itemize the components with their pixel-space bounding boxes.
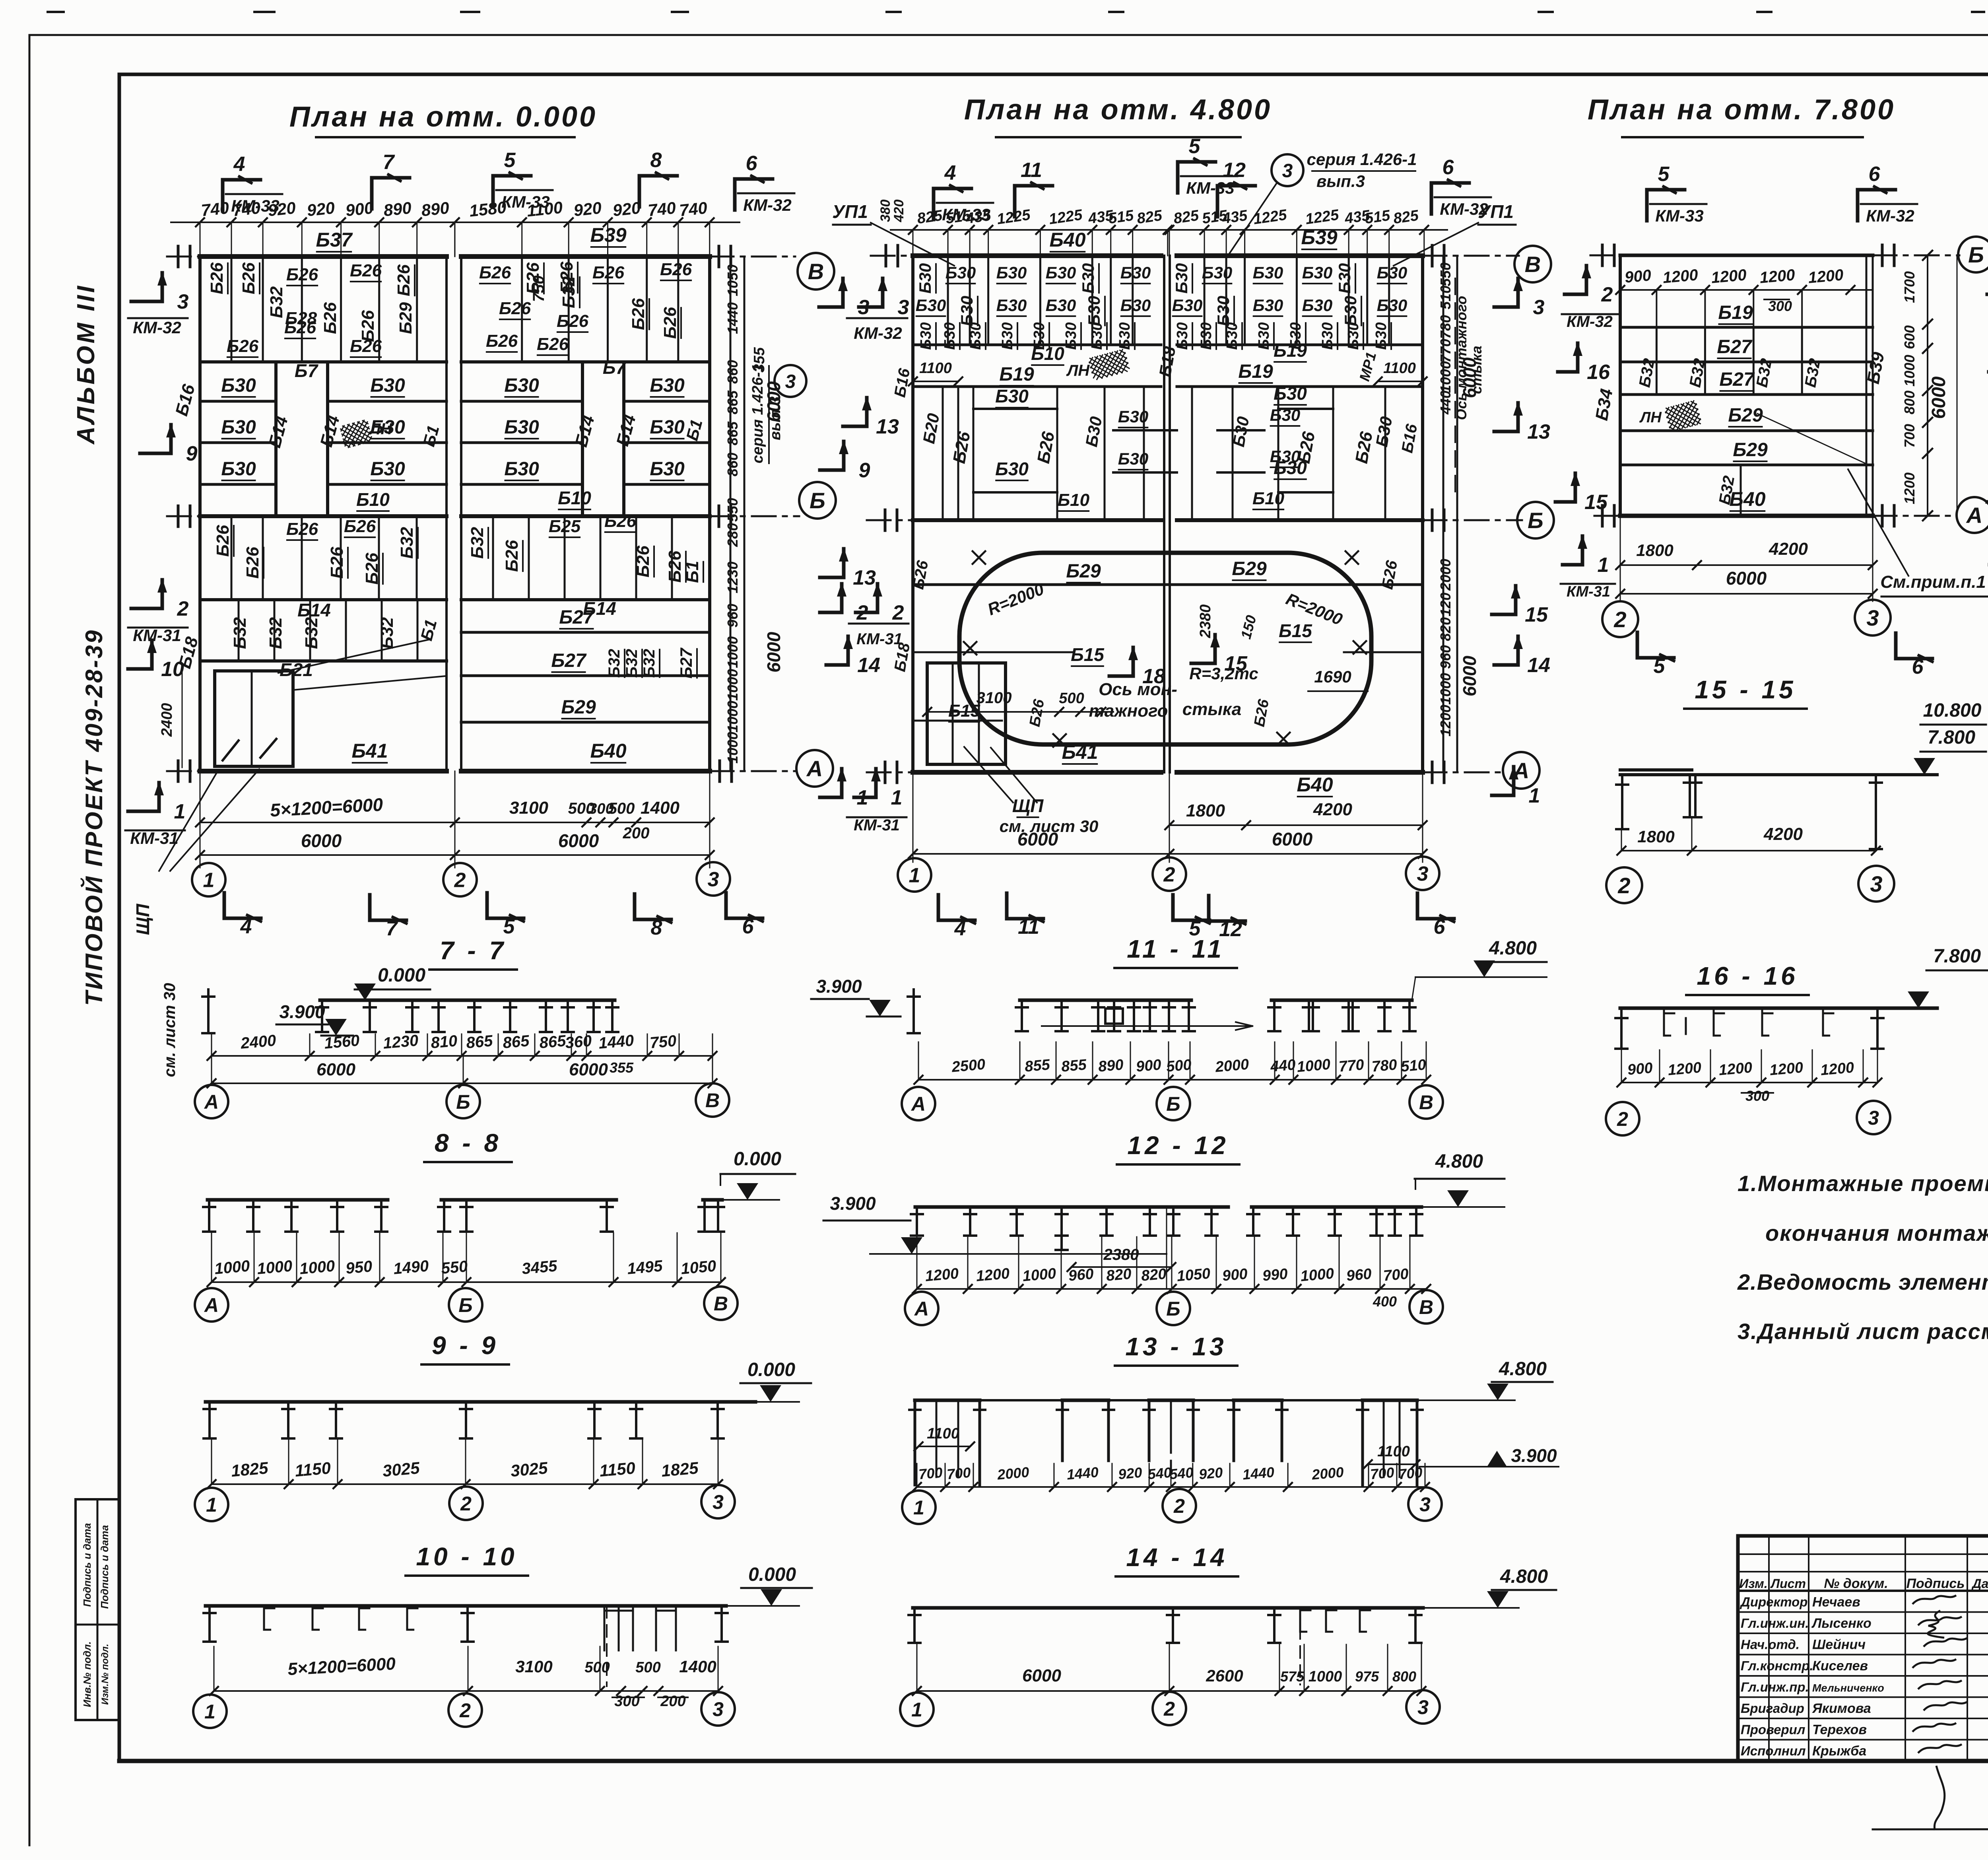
svg-text:Б26: Б26 <box>350 261 382 280</box>
svg-text:Б30: Б30 <box>1031 322 1048 350</box>
svg-text:ЛН: ЛН <box>1066 362 1090 379</box>
svg-text:1000: 1000 <box>1309 1668 1342 1685</box>
svg-text:Б30: Б30 <box>504 375 539 396</box>
svg-text:Б15: Б15 <box>948 701 980 721</box>
svg-text:1800: 1800 <box>1637 827 1674 846</box>
svg-text:Гл.инж.пр.: Гл.инж.пр. <box>1741 1680 1809 1695</box>
svg-text:А: А <box>911 1093 926 1115</box>
svg-text:вып.3: вып.3 <box>1316 172 1365 190</box>
svg-text:920: 920 <box>612 198 642 220</box>
svg-text:см. лист 30: см. лист 30 <box>161 983 179 1077</box>
svg-text:Б7: Б7 <box>603 357 627 378</box>
svg-text:920: 920 <box>573 198 603 220</box>
svg-text:КМ-33: КМ-33 <box>1655 206 1704 225</box>
svg-text:В: В <box>705 1089 720 1112</box>
svg-text:Б26: Б26 <box>557 311 589 331</box>
svg-text:Б29: Б29 <box>1733 439 1768 461</box>
svg-text:Б30: Б30 <box>1116 322 1133 350</box>
svg-text:960: 960 <box>1068 1265 1095 1284</box>
svg-text:Б: Б <box>1528 508 1543 533</box>
svg-text:3: 3 <box>1282 160 1293 181</box>
svg-text:1440: 1440 <box>1242 1464 1275 1483</box>
svg-text:1440: 1440 <box>724 302 741 334</box>
svg-text:Б30: Б30 <box>1085 296 1103 326</box>
svg-text:3: 3 <box>1870 871 1882 896</box>
svg-text:Б29: Б29 <box>561 697 596 718</box>
svg-text:КМ-32: КМ-32 <box>133 318 181 337</box>
svg-text:3.900: 3.900 <box>279 1001 325 1022</box>
svg-text:Б30: Б30 <box>1274 383 1307 404</box>
svg-text:5: 5 <box>1189 135 1201 158</box>
svg-text:1100: 1100 <box>919 360 952 377</box>
svg-text:780: 780 <box>1437 315 1454 339</box>
svg-text:Б: Б <box>1968 242 1984 267</box>
svg-text:355: 355 <box>610 1059 634 1076</box>
svg-text:920: 920 <box>306 198 336 220</box>
svg-text:10.800: 10.800 <box>1923 700 1982 721</box>
svg-text:280: 280 <box>724 523 741 547</box>
svg-text:6000: 6000 <box>1017 829 1058 849</box>
svg-text:15 - 15: 15 - 15 <box>1695 675 1796 704</box>
svg-text:Б26: Б26 <box>633 545 653 577</box>
svg-text:1: 1 <box>174 800 186 823</box>
svg-text:Б32: Б32 <box>267 286 286 318</box>
svg-text:920: 920 <box>1118 1464 1143 1483</box>
svg-text:Б26: Б26 <box>286 519 318 539</box>
svg-text:11 - 11: 11 - 11 <box>1127 935 1225 963</box>
svg-text:825: 825 <box>916 207 944 227</box>
svg-text:1800: 1800 <box>1186 801 1225 820</box>
svg-text:3100: 3100 <box>509 798 548 818</box>
svg-text:12 - 12: 12 - 12 <box>1127 1131 1229 1160</box>
svg-text:11: 11 <box>1018 915 1039 939</box>
svg-text:2: 2 <box>1601 283 1613 306</box>
svg-text:КМ-32: КМ-32 <box>1567 313 1613 330</box>
svg-text:550: 550 <box>441 1257 468 1277</box>
svg-text:Б30: Б30 <box>221 459 256 480</box>
svg-text:ЛН: ЛН <box>369 420 392 438</box>
svg-text:КМ-31: КМ-31 <box>130 829 179 847</box>
svg-text:575: 575 <box>1280 1668 1305 1685</box>
svg-text:13: 13 <box>1527 420 1550 443</box>
svg-text:Б30: Б30 <box>1256 322 1272 350</box>
svg-text:0.000: 0.000 <box>748 1564 796 1585</box>
svg-text:550: 550 <box>1437 262 1454 286</box>
svg-text:Б30: Б30 <box>1198 322 1215 350</box>
svg-text:Б30: Б30 <box>221 375 256 396</box>
svg-text:960: 960 <box>1437 645 1454 669</box>
svg-text:План на отм. 7.800: План на отм. 7.800 <box>1588 94 1895 126</box>
svg-text:1200: 1200 <box>1769 1059 1804 1079</box>
svg-text:1580: 1580 <box>468 198 507 220</box>
svg-text:Б30: Б30 <box>1377 263 1407 282</box>
svg-text:1: 1 <box>1598 554 1609 577</box>
svg-text:Б32: Б32 <box>641 649 658 678</box>
svg-text:4.800: 4.800 <box>1489 938 1537 959</box>
svg-text:3: 3 <box>1419 1493 1431 1516</box>
svg-text:Инв.№ подл.: Инв.№ подл. <box>81 1641 93 1707</box>
svg-text:3.900: 3.900 <box>830 1193 876 1214</box>
svg-text:1050: 1050 <box>724 264 741 296</box>
svg-text:2400: 2400 <box>159 703 175 737</box>
svg-text:1: 1 <box>206 1494 217 1516</box>
svg-text:Б30: Б30 <box>370 375 405 396</box>
svg-text:Б32: Б32 <box>302 617 321 649</box>
svg-text:0.000: 0.000 <box>734 1149 781 1170</box>
svg-text:1400: 1400 <box>679 1657 716 1676</box>
svg-text:4200: 4200 <box>1769 539 1808 559</box>
svg-text:Изм.: Изм. <box>1739 1576 1767 1591</box>
svg-text:УП1: УП1 <box>832 201 868 222</box>
svg-text:Б30: Б30 <box>1377 296 1407 315</box>
svg-text:1000: 1000 <box>214 1257 250 1278</box>
svg-text:1150: 1150 <box>294 1458 332 1480</box>
svg-text:435: 435 <box>1221 207 1248 227</box>
svg-text:15: 15 <box>1525 603 1548 626</box>
svg-text:700: 700 <box>1901 424 1918 448</box>
svg-text:В: В <box>1419 1091 1433 1114</box>
svg-text:серия 1.426-1: серия 1.426-1 <box>1307 150 1417 169</box>
svg-text:Б7: Б7 <box>295 360 319 381</box>
svg-text:Б26: Б26 <box>629 298 648 330</box>
svg-text:Б26: Б26 <box>499 299 531 318</box>
svg-text:Б30: Б30 <box>995 459 1029 479</box>
svg-text:1200: 1200 <box>1718 1059 1753 1079</box>
svg-text:Б30: Б30 <box>1120 296 1151 315</box>
svg-text:7.800: 7.800 <box>1933 946 1981 967</box>
svg-text:855: 855 <box>1061 1056 1088 1075</box>
svg-text:750: 750 <box>649 1032 677 1052</box>
svg-text:Б26: Б26 <box>486 331 518 351</box>
svg-text:Б30: Б30 <box>996 296 1027 315</box>
svg-text:1200: 1200 <box>1807 266 1844 287</box>
svg-text:515: 515 <box>1364 207 1391 227</box>
svg-text:11: 11 <box>1021 159 1042 182</box>
svg-text:380: 380 <box>878 200 893 222</box>
svg-text:0.000: 0.000 <box>378 965 425 986</box>
svg-text:700: 700 <box>946 1464 971 1483</box>
svg-text:Подпись: Подпись <box>1906 1576 1965 1591</box>
svg-text:Б26: Б26 <box>537 334 569 354</box>
svg-text:Лысенко: Лысенко <box>1811 1616 1872 1631</box>
svg-text:1200: 1200 <box>1437 705 1454 737</box>
svg-text:1: 1 <box>909 864 920 887</box>
svg-text:2.Ведомость элементов и общ: 2.Ведомость элементов и общие примечания… <box>1737 1269 1988 1294</box>
svg-text:1100: 1100 <box>1377 1443 1410 1460</box>
svg-text:Б30: Б30 <box>916 296 946 315</box>
svg-text:510: 510 <box>1400 1056 1427 1075</box>
svg-text:Б30: Б30 <box>1120 263 1151 282</box>
svg-text:Шейнич: Шейнич <box>1812 1637 1866 1652</box>
svg-text:Б40: Б40 <box>1297 774 1333 796</box>
svg-text:А: А <box>204 1294 219 1316</box>
svg-text:1490: 1490 <box>393 1257 429 1278</box>
svg-text:КМ-31: КМ-31 <box>133 626 181 645</box>
svg-text:7 - 7: 7 - 7 <box>440 936 507 965</box>
svg-text:Б29: Б29 <box>1232 558 1267 579</box>
svg-text:5: 5 <box>1658 163 1670 186</box>
svg-text:6000: 6000 <box>316 1060 355 1079</box>
svg-text:Гл.констр.: Гл.констр. <box>1741 1658 1813 1673</box>
svg-text:ТИПОВОЙ ПРОЕКТ 409-28-39: ТИПОВОЙ ПРОЕКТ 409-28-39 <box>80 629 107 1006</box>
svg-text:2380: 2380 <box>1197 604 1214 639</box>
svg-text:3: 3 <box>1417 1696 1429 1718</box>
svg-text:Б30: Б30 <box>1172 296 1202 315</box>
svg-text:3100: 3100 <box>515 1657 552 1676</box>
svg-text:Б27: Б27 <box>1717 336 1753 358</box>
svg-text:9 - 9: 9 - 9 <box>432 1331 499 1360</box>
svg-text:Б39: Б39 <box>1301 226 1337 249</box>
svg-text:Б: Б <box>458 1294 472 1316</box>
svg-text:6000: 6000 <box>558 830 599 851</box>
svg-text:890: 890 <box>1098 1056 1124 1075</box>
svg-text:900: 900 <box>345 198 375 220</box>
svg-text:500: 500 <box>635 1659 660 1676</box>
svg-text:7.800: 7.800 <box>1928 727 1975 748</box>
svg-text:Б26: Б26 <box>502 540 522 572</box>
svg-text:Б19: Б19 <box>1238 361 1273 382</box>
svg-text:КМ-31: КМ-31 <box>856 630 903 648</box>
svg-text:1: 1 <box>911 1699 922 1721</box>
svg-text:Б30: Б30 <box>1046 263 1076 282</box>
svg-text:2400: 2400 <box>240 1032 277 1052</box>
svg-text:Изм.№ подл.: Изм.№ подл. <box>100 1644 111 1705</box>
svg-text:515: 515 <box>1107 207 1135 227</box>
svg-text:920: 920 <box>267 198 297 220</box>
svg-text:1000: 1000 <box>1022 1265 1057 1285</box>
svg-text:1230: 1230 <box>724 562 741 593</box>
svg-text:1200: 1200 <box>924 1265 959 1285</box>
svg-text:1200: 1200 <box>1667 1059 1702 1079</box>
svg-text:1230: 1230 <box>382 1032 419 1052</box>
svg-text:6: 6 <box>742 915 754 938</box>
svg-text:В: В <box>808 259 824 284</box>
svg-text:Б32: Б32 <box>606 649 623 678</box>
svg-text:810: 810 <box>430 1032 458 1052</box>
svg-text:Исполнил: Исполнил <box>1741 1743 1806 1758</box>
svg-text:Б30: Б30 <box>1253 263 1283 282</box>
svg-text:Б10: Б10 <box>558 488 591 508</box>
svg-text:500: 500 <box>1059 690 1084 707</box>
svg-text:300: 300 <box>1745 1088 1769 1104</box>
svg-text:1150: 1150 <box>599 1458 636 1480</box>
svg-text:Б26: Б26 <box>320 302 340 334</box>
svg-text:Б28: Б28 <box>285 309 317 328</box>
svg-text:Б37: Б37 <box>316 229 353 251</box>
svg-text:3.900: 3.900 <box>1511 1445 1557 1466</box>
svg-text:1000: 1000 <box>1300 1265 1335 1285</box>
svg-text:Б10: Б10 <box>356 489 390 510</box>
svg-text:2: 2 <box>177 597 189 620</box>
svg-text:АЛЬБОМ III: АЛЬБОМ III <box>72 284 100 445</box>
svg-text:900: 900 <box>1136 1056 1162 1075</box>
svg-text:А: А <box>914 1298 929 1320</box>
svg-text:План на отм. 4.800: План на отм. 4.800 <box>964 94 1272 126</box>
svg-text:900: 900 <box>1627 1059 1654 1078</box>
svg-text:Б26: Б26 <box>660 307 680 339</box>
svg-text:1000: 1000 <box>724 732 741 764</box>
svg-text:Б30: Б30 <box>1174 322 1191 350</box>
svg-text:540: 540 <box>1169 1464 1194 1483</box>
svg-text:стыка: стыка <box>1182 700 1241 719</box>
svg-text:А: А <box>1512 758 1529 783</box>
svg-text:Б32: Б32 <box>468 527 487 559</box>
svg-text:3: 3 <box>1866 605 1879 630</box>
svg-text:2: 2 <box>1163 1698 1175 1720</box>
svg-text:См.прим.п.1: См.прим.п.1 <box>1880 572 1986 592</box>
svg-text:3100: 3100 <box>977 689 1012 707</box>
svg-text:10 - 10: 10 - 10 <box>416 1542 517 1571</box>
svg-text:3: 3 <box>1417 863 1429 886</box>
svg-text:Б26: Б26 <box>350 336 382 356</box>
svg-text:Крыжба: Крыжба <box>1812 1743 1866 1759</box>
svg-text:120: 120 <box>1437 593 1454 616</box>
svg-text:1: 1 <box>204 1701 215 1723</box>
svg-text:6: 6 <box>746 152 758 175</box>
svg-text:6000: 6000 <box>301 830 342 851</box>
svg-text:2000: 2000 <box>1311 1464 1344 1483</box>
svg-text:Б27: Б27 <box>551 650 587 671</box>
svg-text:Б26: Б26 <box>592 263 625 282</box>
svg-text:5: 5 <box>1654 655 1666 678</box>
svg-text:Б19: Б19 <box>1718 302 1753 323</box>
svg-text:Б26: Б26 <box>362 552 382 585</box>
svg-text:Ось мон-: Ось мон- <box>1099 680 1177 699</box>
svg-text:Б30: Б30 <box>1302 296 1332 315</box>
svg-text:3025: 3025 <box>382 1458 421 1480</box>
svg-text:А: А <box>1966 503 1982 528</box>
svg-text:Б26: Б26 <box>239 262 258 294</box>
svg-text:1440: 1440 <box>1066 1464 1099 1483</box>
svg-text:3: 3 <box>712 1698 724 1720</box>
svg-text:14: 14 <box>857 654 880 677</box>
svg-text:Б30: Б30 <box>1063 322 1079 350</box>
svg-text:780: 780 <box>1371 1056 1398 1075</box>
svg-text:1100: 1100 <box>526 198 564 220</box>
svg-text:4.800: 4.800 <box>1499 1359 1547 1380</box>
svg-text:435: 435 <box>964 207 992 227</box>
svg-text:Б25: Б25 <box>549 517 581 536</box>
svg-text:13: 13 <box>876 415 899 438</box>
svg-text:800: 800 <box>1901 391 1918 414</box>
svg-text:1200: 1200 <box>975 1265 1010 1285</box>
svg-text:Б21: Б21 <box>280 659 313 680</box>
svg-text:Б26: Б26 <box>227 336 259 356</box>
svg-text:6000: 6000 <box>1022 1666 1061 1685</box>
svg-text:0.000: 0.000 <box>747 1359 795 1380</box>
svg-text:2000: 2000 <box>1437 559 1454 591</box>
svg-text:А: А <box>204 1091 219 1113</box>
svg-text:4200: 4200 <box>1313 800 1352 819</box>
svg-text:Мельниченко: Мельниченко <box>1812 1682 1884 1694</box>
svg-text:Б: Б <box>1166 1298 1180 1320</box>
svg-text:865: 865 <box>539 1032 567 1052</box>
svg-text:Б30: Б30 <box>370 459 405 480</box>
svg-text:Б32: Б32 <box>623 649 641 678</box>
svg-text:Б1: Б1 <box>683 561 702 583</box>
svg-text:Б30: Б30 <box>650 417 685 438</box>
svg-text:План на отм. 0.000: План на отм. 0.000 <box>289 101 597 133</box>
svg-text:440: 440 <box>1270 1056 1297 1075</box>
svg-text:4: 4 <box>944 161 956 185</box>
svg-text:2000: 2000 <box>996 1464 1030 1483</box>
svg-text:Б26: Б26 <box>604 511 637 531</box>
svg-text:3: 3 <box>1868 1107 1879 1129</box>
svg-text:300: 300 <box>1768 298 1792 314</box>
svg-text:5: 5 <box>503 915 515 938</box>
svg-text:ЛН: ЛН <box>1639 409 1662 426</box>
svg-text:Б26: Б26 <box>327 546 347 579</box>
svg-text:700: 700 <box>1398 1464 1423 1483</box>
svg-text:16: 16 <box>1587 361 1610 384</box>
svg-text:Киселев: Киселев <box>1812 1658 1868 1673</box>
svg-text:Б30: Б30 <box>945 263 976 282</box>
svg-text:Б15: Б15 <box>1279 620 1312 641</box>
svg-text:820: 820 <box>1106 1265 1132 1284</box>
svg-text:Б30: Б30 <box>1172 263 1191 293</box>
svg-text:Б41: Б41 <box>351 740 388 762</box>
svg-text:Бригадир: Бригадир <box>1741 1701 1804 1716</box>
svg-text:Б30: Б30 <box>1373 322 1390 350</box>
svg-text:КМ-32: КМ-32 <box>854 324 902 342</box>
svg-text:2500: 2500 <box>951 1056 986 1075</box>
svg-text:865: 865 <box>502 1032 530 1052</box>
svg-text:1495: 1495 <box>627 1257 664 1278</box>
svg-text:Б30: Б30 <box>504 459 539 480</box>
svg-text:Б30: Б30 <box>650 459 685 480</box>
svg-text:16 - 16: 16 - 16 <box>1697 962 1798 990</box>
svg-text:1000: 1000 <box>256 1257 293 1278</box>
svg-text:Б15: Б15 <box>1071 644 1105 665</box>
svg-text:Б32: Б32 <box>559 276 579 308</box>
svg-text:Ось монтажного: Ось монтажного <box>1453 296 1470 420</box>
svg-text:4200: 4200 <box>1763 824 1803 844</box>
svg-text:№ докум.: № докум. <box>1824 1576 1888 1591</box>
svg-text:1825: 1825 <box>660 1458 699 1480</box>
svg-text:1000: 1000 <box>724 669 741 701</box>
svg-text:6000: 6000 <box>1459 655 1480 696</box>
svg-text:Б30: Б30 <box>1079 263 1097 293</box>
svg-text:9: 9 <box>859 459 870 482</box>
svg-text:3: 3 <box>785 371 796 392</box>
svg-text:ЩП: ЩП <box>132 904 153 935</box>
svg-text:Б30: Б30 <box>957 296 976 326</box>
svg-text:Б32: Б32 <box>377 617 397 649</box>
svg-text:2: 2 <box>856 601 868 624</box>
svg-text:Б30: Б30 <box>1341 296 1360 326</box>
svg-text:1560: 1560 <box>324 1032 360 1052</box>
svg-text:2: 2 <box>460 1493 472 1515</box>
svg-text:990: 990 <box>1262 1265 1289 1284</box>
svg-text:750: 750 <box>530 276 547 302</box>
svg-text:6: 6 <box>1869 163 1881 186</box>
svg-text:740: 740 <box>232 198 262 220</box>
svg-text:2: 2 <box>454 869 466 892</box>
svg-text:В: В <box>1525 252 1541 277</box>
svg-text:В: В <box>1419 1296 1433 1318</box>
svg-text:6000: 6000 <box>569 1060 608 1079</box>
svg-text:КМ-32: КМ-32 <box>743 196 792 214</box>
svg-text:12: 12 <box>1223 159 1246 182</box>
svg-text:Б30: Б30 <box>1253 296 1283 315</box>
svg-text:1200: 1200 <box>1820 1059 1855 1079</box>
svg-text:1200: 1200 <box>1759 266 1796 287</box>
svg-text:14: 14 <box>1527 654 1550 677</box>
svg-text:Б40: Б40 <box>590 740 626 762</box>
svg-text:4: 4 <box>240 915 252 938</box>
svg-text:Директор: Директор <box>1739 1595 1807 1609</box>
svg-text:6000: 6000 <box>1726 568 1767 589</box>
